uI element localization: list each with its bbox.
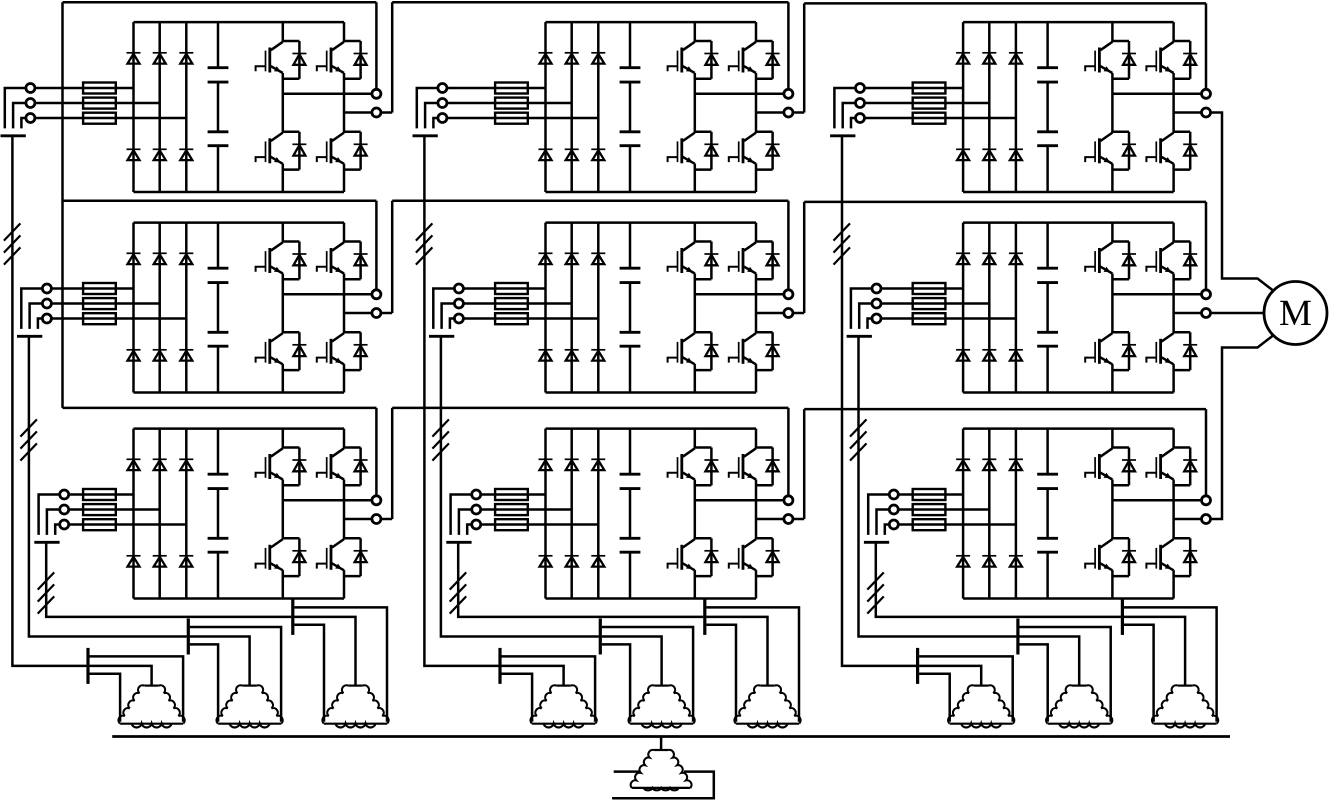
cell5 output node A wire <box>695 293 784 296</box>
cell6 H-bridge left leg wire <box>1111 223 1114 393</box>
cell1 feed line phase b <box>35 102 160 105</box>
cell8 output terminal T2 <box>784 515 793 524</box>
cell2 rectifier diode D1 <box>539 53 553 64</box>
cell3 rectifier leg 3 <box>1015 22 1018 192</box>
cell8 rectifier leg 1 <box>544 429 547 599</box>
cell5 capacitor C2 <box>620 332 641 346</box>
cell8 rectifier diode D1 <box>539 459 553 470</box>
cell2 H-bridge left leg wire <box>694 22 697 192</box>
cell6 rectifier diode D4 <box>956 350 970 361</box>
cell6 dc-link wire <box>1046 223 1049 393</box>
cell9 IGBT Q3 with diode <box>1085 538 1136 576</box>
cell9 H-bridge left leg wire <box>1111 429 1114 599</box>
cell3 capacitor C2 <box>1037 132 1058 146</box>
cell9 output terminal T1 <box>1202 496 1211 505</box>
cell2 rectifier leg 3 <box>597 22 600 192</box>
cell6 capacitor C2 <box>1037 332 1058 346</box>
cell4 rectifier diode D3 <box>179 253 193 264</box>
cell1 rectifier diode D4 <box>127 149 141 160</box>
three-phase slash marks col2 row1 <box>416 223 433 264</box>
cell2 feed line phase c <box>447 117 598 120</box>
cell6 rectifier diode D5 <box>982 350 996 361</box>
cell2 rectifier leg 1 <box>544 22 547 192</box>
cell3 IGBT Q1 with diode <box>1085 41 1136 79</box>
cell1 feed line phase c <box>35 117 186 120</box>
cell7 output terminal T1 <box>372 496 381 505</box>
winding leads col3 row2 <box>1019 627 1110 722</box>
motor phase wire from row 1 <box>1211 113 1274 291</box>
cell5 feed line phase a <box>464 287 546 290</box>
cell6 feed line phase b <box>881 302 989 305</box>
feeder wire col3 row3 <box>876 542 1121 617</box>
cell7 H-bridge right leg wire <box>343 429 346 599</box>
row 3 neutral link wire <box>63 408 377 496</box>
cell9 rectifier leg 1 <box>962 429 965 599</box>
cell4 H-bridge left leg wire <box>282 223 285 393</box>
cell3 feed line phase b <box>865 102 990 105</box>
cell3 IGBT Q3 with diode <box>1085 132 1136 170</box>
cell6 three-phase bundle bar <box>847 335 872 338</box>
cell9 rectifier diode D1 <box>956 459 970 470</box>
cell6 IGBT Q1 with diode <box>1085 242 1136 280</box>
row 3 series link wire cell8-cell9 <box>793 409 1206 519</box>
cell6 rectifier leg 2 <box>988 223 991 393</box>
row 1 series link wire cell1-cell2 <box>381 2 788 112</box>
cell4 output node B wire <box>344 312 372 315</box>
cell5 output terminal T2 <box>784 309 793 318</box>
cell8 rectifier bridge rails <box>546 429 757 599</box>
cell1 IGBT Q4 with diode <box>317 132 368 170</box>
cell4 dc-link wire <box>217 223 220 393</box>
cell9 capacitor C2 <box>1037 538 1058 552</box>
primary delta winding <box>631 750 692 790</box>
motor phase wire from row 3 <box>1211 335 1274 519</box>
cell9 feed line phase c <box>898 523 1016 526</box>
cell1 input terminal wires <box>5 88 26 128</box>
cell6 IGBT Q2 with diode <box>1146 242 1197 280</box>
cell6 input terminals (3 circles) <box>872 284 881 323</box>
cell3 output terminal T1 <box>1202 89 1211 98</box>
cell9 rectifier leg 3 <box>1015 429 1018 599</box>
cell2 rectifier diode D5 <box>565 149 579 160</box>
cell9 IGBT Q1 with diode <box>1085 448 1136 486</box>
expander bar col2 row3 <box>703 599 706 635</box>
cell4 output terminal T1 <box>372 290 381 299</box>
cell3 output node B wire <box>1174 111 1202 114</box>
cell8 capacitor C2 <box>620 538 641 552</box>
cell2 feed line phase a <box>447 87 546 90</box>
cell3 IGBT Q4 with diode <box>1146 132 1197 170</box>
cell3 dc-link wire <box>1046 22 1049 192</box>
cell7 capacitor C2 <box>208 538 229 552</box>
cell5 H-bridge right leg wire <box>755 223 758 393</box>
feeder wire col2 row1 <box>424 136 498 666</box>
cell1 output terminal T1 <box>372 89 381 98</box>
feeder wire col3 row1 <box>842 136 916 666</box>
three-phase slash marks col1 row1 <box>4 223 21 264</box>
cell7 H-bridge left leg wire <box>282 429 285 599</box>
cell7 rectifier leg 2 <box>158 429 161 599</box>
cell6 rectifier diode D6 <box>1009 350 1023 361</box>
cell2 rectifier diode D3 <box>591 53 605 64</box>
cell5 capacitor C1 <box>620 268 641 282</box>
expander bar col3 row3 <box>1121 599 1124 635</box>
expander bar col3 row2 <box>1016 619 1019 655</box>
cell4 rectifier diode D2 <box>153 253 167 264</box>
cell2 rectifier diode D6 <box>591 149 605 160</box>
secondary delta winding col1 row2 <box>216 685 282 727</box>
cell3 capacitor C1 <box>1037 68 1058 82</box>
cell7 IGBT Q3 with diode <box>256 538 307 576</box>
motor phase wire from row 2 <box>1211 312 1264 315</box>
cell5 IGBT Q1 with diode <box>668 242 719 280</box>
feeder wire col2 row3 <box>458 542 703 617</box>
cell9 feed line phase a <box>898 493 963 496</box>
secondary delta winding col3 row1 <box>948 685 1014 727</box>
cell1 IGBT Q3 with diode <box>256 132 307 170</box>
cell2 rectifier diode D2 <box>565 53 579 64</box>
cell8 IGBT Q3 with diode <box>668 538 719 576</box>
cell3 IGBT Q2 with diode <box>1146 41 1197 79</box>
cell5 input terminals (3 circles) <box>454 284 463 323</box>
winding leads col2 row3 <box>706 607 799 721</box>
expander bar col1 row2 <box>187 619 190 655</box>
cell3 output node A wire <box>1112 93 1201 96</box>
cell8 rectifier diode D5 <box>565 556 579 567</box>
cell8 output node A wire <box>695 499 784 502</box>
cell5 IGBT Q3 with diode <box>668 332 719 370</box>
cell9 input terminal wires <box>868 495 889 535</box>
cell8 three-phase bundle bar <box>446 541 471 544</box>
cell6 IGBT Q4 with diode <box>1146 332 1197 370</box>
three-phase slash marks col3 row3 <box>867 572 884 613</box>
three-phase slash marks col1 row3 <box>38 572 55 613</box>
cell4 input terminals (3 circles) <box>42 284 51 323</box>
cell4 IGBT Q3 with diode <box>256 332 307 370</box>
cell7 output node B wire <box>344 518 372 521</box>
cell3 H-bridge right leg wire <box>1172 22 1175 192</box>
cell3 rectifier diode D2 <box>982 53 996 64</box>
cell2 output node B wire <box>756 111 784 114</box>
cell3 rectifier diode D6 <box>1009 149 1023 160</box>
expander bar col2 row1 <box>498 648 501 684</box>
cell6 input terminal wires <box>851 289 872 329</box>
cell4 rectifier leg 3 <box>185 223 188 393</box>
cell6 H-bridge right leg wire <box>1172 223 1175 393</box>
row 2 neutral link wire <box>63 201 377 290</box>
cell1 rectifier diode D5 <box>153 149 167 160</box>
cell1 dc-link wire <box>217 22 220 192</box>
cell1 rectifier diode D6 <box>179 149 193 160</box>
cell6 output terminal T1 <box>1202 290 1211 299</box>
cell7 rectifier diode D4 <box>127 556 141 567</box>
expander bar col3 row1 <box>916 648 919 684</box>
cell5 H-bridge left leg wire <box>694 223 697 393</box>
cell2 output node A wire <box>695 93 784 96</box>
cell3 output terminal T2 <box>1202 108 1211 117</box>
cell7 three-phase bundle bar <box>34 541 59 544</box>
cell6 rectifier leg 1 <box>962 223 965 393</box>
cell8 rectifier diode D3 <box>591 459 605 470</box>
secondary delta winding col3 row3 <box>1152 685 1218 727</box>
primary apex riser <box>660 737 663 751</box>
cell4 IGBT Q2 with diode <box>317 242 368 280</box>
cell9 rectifier bridge rails <box>963 429 1174 599</box>
cell8 dc-link wire <box>629 429 632 599</box>
feeder wire col2 row2 <box>441 336 599 636</box>
cell8 IGBT Q1 with diode <box>668 448 719 486</box>
cell5 rectifier diode D6 <box>591 350 605 361</box>
cell5 output node B wire <box>756 312 784 315</box>
cell1 three-phase bundle bar <box>1 134 26 137</box>
cell2 input terminal wires <box>417 88 438 128</box>
cell8 input terminals (3 circles) <box>472 490 481 529</box>
cell2 line reactor L2 <box>495 83 528 124</box>
cell8 rectifier diode D4 <box>539 556 553 567</box>
cell2 feed line phase b <box>447 102 572 105</box>
cell8 H-bridge right leg wire <box>755 429 758 599</box>
cell4 input terminal wires <box>21 289 42 329</box>
cell7 line reactor L7 <box>83 489 116 530</box>
cell8 rectifier diode D6 <box>591 556 605 567</box>
cell7 IGBT Q1 with diode <box>256 448 307 486</box>
cell8 rectifier leg 2 <box>570 429 573 599</box>
cell5 rectifier diode D3 <box>591 253 605 264</box>
cell5 input terminal wires <box>433 289 454 329</box>
cell4 rectifier diode D1 <box>127 253 141 264</box>
cell3 rectifier bridge rails <box>963 22 1174 192</box>
cell7 capacitor C1 <box>208 474 229 488</box>
cell3 feed line phase a <box>865 87 964 90</box>
cell7 rectifier bridge rails <box>134 429 345 599</box>
cell1 rectifier diode D3 <box>179 53 193 64</box>
cell4 feed line phase c <box>52 317 187 320</box>
cell8 IGBT Q2 with diode <box>729 448 780 486</box>
cell2 H-bridge right leg wire <box>755 22 758 192</box>
cell6 output node B wire <box>1174 312 1202 315</box>
cell7 rectifier diode D2 <box>153 459 167 470</box>
cell6 rectifier diode D1 <box>956 253 970 264</box>
cell3 rectifier leg 2 <box>988 22 991 192</box>
cell7 dc-link wire <box>217 429 220 599</box>
cell4 feed line phase b <box>52 302 160 305</box>
cell5 rectifier bridge rails <box>546 223 757 393</box>
cell6 rectifier diode D2 <box>982 253 996 264</box>
cell2 rectifier leg 2 <box>570 22 573 192</box>
motor M <box>1264 282 1327 345</box>
cell9 output terminal T2 <box>1202 515 1211 524</box>
cell4 IGBT Q1 with diode <box>256 242 307 280</box>
cell4 capacitor C1 <box>208 268 229 282</box>
cell3 rectifier diode D5 <box>982 149 996 160</box>
transformer core line <box>112 735 1230 738</box>
cell2 output terminal T1 <box>784 89 793 98</box>
three-phase slash marks col2 row3 <box>450 572 467 613</box>
cell7 feed line phase c <box>69 523 187 526</box>
cell9 rectifier diode D4 <box>956 556 970 567</box>
cell2 IGBT Q3 with diode <box>668 132 719 170</box>
cell2 input terminals (3 circles) <box>438 84 447 123</box>
cell9 rectifier diode D3 <box>1009 459 1023 470</box>
cell2 capacitor C1 <box>620 68 641 82</box>
cell9 dc-link wire <box>1046 429 1049 599</box>
cell9 capacitor C1 <box>1037 474 1058 488</box>
cell6 rectifier bridge rails <box>963 223 1174 393</box>
cell1 IGBT Q1 with diode <box>256 41 307 79</box>
secondary delta winding col1 row3 <box>322 685 388 727</box>
secondary delta winding col1 row1 <box>118 685 184 727</box>
cell1 output terminal T2 <box>372 108 381 117</box>
cell4 rectifier bridge rails <box>134 223 345 393</box>
cell7 input terminals (3 circles) <box>60 490 69 529</box>
cell7 IGBT Q4 with diode <box>317 538 368 576</box>
cell3 rectifier diode D1 <box>956 53 970 64</box>
cell5 rectifier leg 1 <box>544 223 547 393</box>
cell6 line reactor L6 <box>913 283 946 324</box>
cell7 rectifier diode D1 <box>127 459 141 470</box>
cell8 rectifier diode D2 <box>565 459 579 470</box>
cell6 output node A wire <box>1112 293 1201 296</box>
three-phase slash marks col3 row2 <box>850 419 867 460</box>
cell2 output terminal T2 <box>784 108 793 117</box>
cell9 rectifier leg 2 <box>988 429 991 599</box>
cell1 capacitor C1 <box>208 68 229 82</box>
secondary delta winding col2 row2 <box>628 685 694 727</box>
cell6 IGBT Q3 with diode <box>1085 332 1136 370</box>
feeder wire col1 row1 <box>12 136 86 666</box>
cell3 rectifier diode D3 <box>1009 53 1023 64</box>
cell5 rectifier diode D2 <box>565 253 579 264</box>
cell4 IGBT Q4 with diode <box>317 332 368 370</box>
cell1 rectifier leg 1 <box>132 22 135 192</box>
cell6 output terminal T2 <box>1202 309 1211 318</box>
cell2 rectifier bridge rails <box>546 22 757 192</box>
cell9 H-bridge right leg wire <box>1172 429 1175 599</box>
cell9 IGBT Q2 with diode <box>1146 448 1197 486</box>
feeder wire col1 row2 <box>29 336 187 636</box>
cell3 rectifier diode D4 <box>956 149 970 160</box>
cell8 feed line phase a <box>481 493 546 496</box>
cell3 rectifier leg 1 <box>962 22 965 192</box>
cell4 rectifier diode D5 <box>153 350 167 361</box>
cell7 feed line phase b <box>69 508 160 511</box>
cell4 output node A wire <box>283 293 372 296</box>
cell2 IGBT Q2 with diode <box>729 41 780 79</box>
secondary delta winding col2 row3 <box>734 685 800 727</box>
cell3 input terminal wires <box>834 88 855 128</box>
cell2 capacitor C2 <box>620 132 641 146</box>
feeder wire col1 row3 <box>46 542 291 617</box>
winding leads col1 row3 <box>294 607 387 721</box>
cell8 rectifier leg 3 <box>597 429 600 599</box>
cell5 rectifier diode D5 <box>565 350 579 361</box>
cell4 rectifier leg 2 <box>158 223 161 393</box>
cell1 rectifier diode D1 <box>127 53 141 64</box>
cell8 feed line phase c <box>481 523 599 526</box>
cell8 H-bridge left leg wire <box>694 429 697 599</box>
cell2 three-phase bundle bar <box>413 134 438 137</box>
cell7 rectifier diode D6 <box>179 556 193 567</box>
cell2 dc-link wire <box>629 22 632 192</box>
winding leads col2 row1 <box>502 656 596 721</box>
cell1 line reactor L1 <box>83 83 116 124</box>
expander bar col2 row2 <box>599 619 602 655</box>
cell4 line reactor L4 <box>83 283 116 324</box>
cell7 output node A wire <box>283 499 372 502</box>
cell7 rectifier diode D5 <box>153 556 167 567</box>
cell7 output terminal T2 <box>372 515 381 524</box>
cell8 feed line phase b <box>481 508 572 511</box>
cell5 dc-link wire <box>629 223 632 393</box>
expander bar col1 row1 <box>86 648 89 684</box>
cell1 rectifier diode D2 <box>153 53 167 64</box>
feeder wire col3 row2 <box>859 336 1017 636</box>
cell7 rectifier leg 1 <box>132 429 135 599</box>
row 3 series link wire cell7-cell8 <box>381 408 788 519</box>
primary supply wire left <box>614 770 640 773</box>
three-phase slash marks col2 row2 <box>432 419 449 460</box>
cell1 output node B wire <box>344 111 372 114</box>
row 1 neutral link wire <box>63 2 377 89</box>
cell8 output terminal T1 <box>784 496 793 505</box>
cell8 capacitor C1 <box>620 474 641 488</box>
cell2 IGBT Q4 with diode <box>729 132 780 170</box>
cell5 rectifier diode D4 <box>539 350 553 361</box>
cell7 feed line phase a <box>69 493 134 496</box>
cell4 feed line phase a <box>52 287 134 290</box>
cell9 three-phase bundle bar <box>864 541 889 544</box>
expander bar col1 row3 <box>291 599 294 635</box>
three-phase slash marks col3 row1 <box>834 223 851 264</box>
cell1 output node A wire <box>283 93 372 96</box>
cell9 IGBT Q4 with diode <box>1146 538 1197 576</box>
cell4 capacitor C2 <box>208 332 229 346</box>
cell7 IGBT Q2 with diode <box>317 448 368 486</box>
cell3 H-bridge left leg wire <box>1111 22 1114 192</box>
primary supply wire right <box>612 772 714 799</box>
cell2 rectifier diode D4 <box>539 149 553 160</box>
cell1 H-bridge right leg wire <box>343 22 346 192</box>
cell6 rectifier diode D3 <box>1009 253 1023 264</box>
cell7 input terminal wires <box>39 495 60 535</box>
cell5 IGBT Q4 with diode <box>729 332 780 370</box>
winding leads col2 row2 <box>602 627 693 722</box>
cell8 input terminal wires <box>451 495 472 535</box>
cell3 line reactor L3 <box>913 83 946 124</box>
row 2 series link wire cell4-cell5 <box>381 201 788 313</box>
cell4 H-bridge right leg wire <box>343 223 346 393</box>
cell5 three-phase bundle bar <box>429 335 454 338</box>
cell1 rectifier bridge rails <box>134 22 345 192</box>
cell7 rectifier leg 3 <box>185 429 188 599</box>
cell4 rectifier leg 1 <box>132 223 135 393</box>
row 1 series link wire cell2-cell3 <box>793 3 1206 112</box>
cell3 feed line phase c <box>865 117 1016 120</box>
cell1 capacitor C2 <box>208 132 229 146</box>
row 2 series link wire cell5-cell6 <box>793 202 1206 313</box>
cell5 rectifier diode D1 <box>539 253 553 264</box>
cell9 rectifier diode D2 <box>982 459 996 470</box>
cell8 IGBT Q4 with diode <box>729 538 780 576</box>
cell5 output terminal T1 <box>784 290 793 299</box>
cell9 output node B wire <box>1174 518 1202 521</box>
cell6 rectifier leg 3 <box>1015 223 1018 393</box>
cell6 feed line phase c <box>881 317 1016 320</box>
winding leads col3 row3 <box>1124 607 1217 721</box>
cell4 output terminal T2 <box>372 309 381 318</box>
cell6 feed line phase a <box>881 287 963 290</box>
cell8 output node B wire <box>756 518 784 521</box>
